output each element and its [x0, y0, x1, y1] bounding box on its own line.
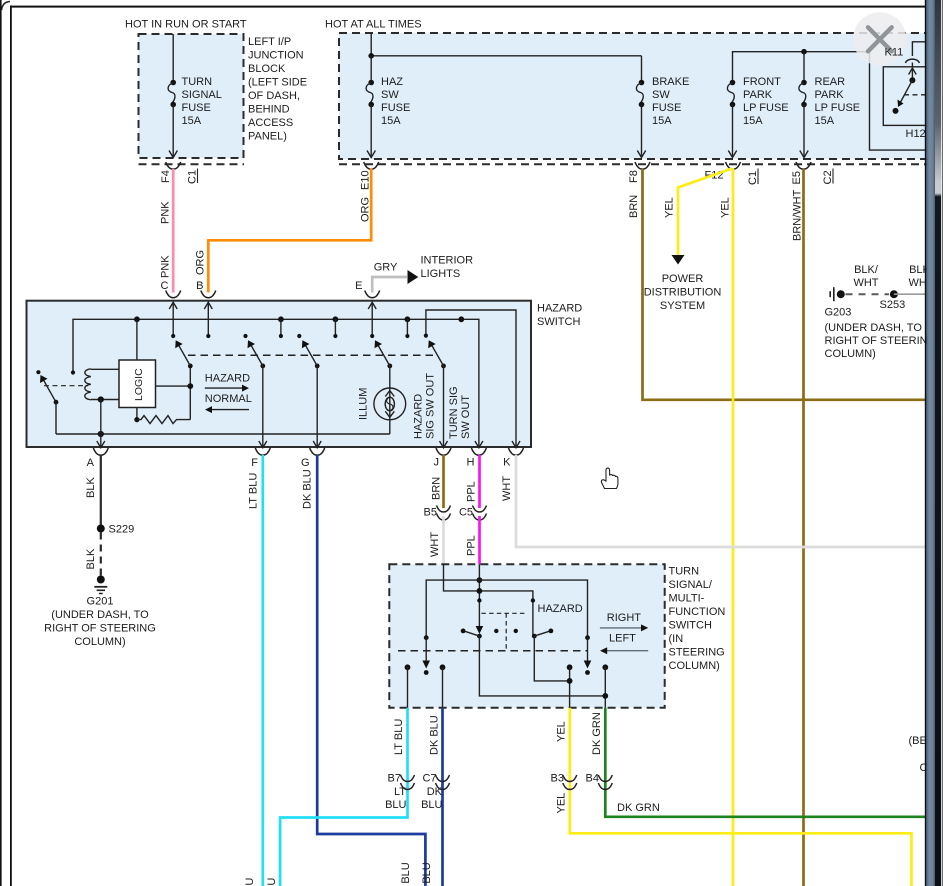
- junction block caption LEFT I/P JUNCTION BLOCK: [248, 36, 307, 143]
- ground label G203 (UNDER DASH, TO RIGHT OF STEERING COLUMN): [825, 307, 937, 361]
- wire PNK from F4 to hazard switch pin C: [172, 169, 175, 293]
- caption TURN SIGNAL/MULTI-FUNCTION SWITCH (IN STEERING COLUMN): [669, 566, 726, 673]
- turn lever right: [532, 629, 570, 681]
- bus wire HAZ-BRAKE (hot at all times): [370, 33, 372, 56]
- svg-text:RIGHT OF STEERING: RIGHT OF STEERING: [825, 335, 937, 347]
- svg-text:(BE: (BE: [909, 735, 927, 747]
- svg-text:WHT: WHT: [429, 532, 441, 557]
- pin A exit arrow: [97, 441, 105, 448]
- label RIGHT with arrow: [600, 612, 648, 631]
- diagram border top: [10, 6, 925, 8]
- svg-text:LT BLU: LT BLU: [248, 473, 260, 509]
- connector C5 arcs: [473, 506, 487, 513]
- flasher relay coil: [85, 369, 119, 400]
- svg-text:B5: B5: [424, 507, 437, 519]
- svg-text:G201: G201: [87, 596, 114, 608]
- ground label G201 (UNDER DASH, TO RIGHT OF STEERING COLUMN): [44, 596, 156, 649]
- flasher mechanical link (dashed): [44, 385, 88, 387]
- rail A stub contact for S4: [405, 319, 409, 338]
- fuse REAR PARK LP FUSE 15A: [799, 52, 808, 158]
- connector E5/C2 arc: [796, 162, 811, 169]
- wire PPL from connector C5 to multi-function switch: [478, 516, 481, 565]
- wire BLK/WHT continuing right: [894, 293, 926, 295]
- svg-text:ILLUM: ILLUM: [358, 388, 370, 420]
- svg-text:BLU: BLU: [421, 799, 442, 811]
- switch arm right (hazard) with arrow: [584, 635, 592, 675]
- junction at HAZ fuse top: [368, 53, 374, 59]
- arrow to INTERIOR LIGHTS: [408, 270, 419, 284]
- wire LT BLU from switch through connector B7 to bottom: [280, 708, 407, 886]
- svg-text:F4: F4: [160, 170, 172, 183]
- contact dot pin YEL: [567, 664, 573, 707]
- svg-text:B7: B7: [388, 773, 401, 785]
- svg-text:G203: G203: [825, 307, 852, 319]
- svg-text:C: C: [161, 280, 169, 292]
- svg-text:REAR: REAR: [815, 76, 846, 88]
- svg-text:YEL: YEL: [556, 793, 568, 814]
- svg-text:15A: 15A: [652, 115, 672, 127]
- label LEFT with arrow: [600, 633, 648, 655]
- contact dot pin DK GRN: [602, 664, 608, 707]
- pin WHT entry into switch: [444, 564, 533, 636]
- pin B entry arrow: [204, 302, 212, 336]
- svg-text:DISTRIBUTION: DISTRIBUTION: [644, 287, 722, 299]
- ganged switch mechanical link (dashed): [188, 354, 436, 356]
- svg-text:WHT: WHT: [501, 476, 513, 501]
- switch S3 (pin G output) floating contact: [297, 334, 301, 338]
- wire ORG from haz sw fuse E10 to hazard switch pin B: [208, 169, 371, 293]
- svg-text:FUSE: FUSE: [652, 102, 681, 114]
- svg-text:SWITCH: SWITCH: [537, 316, 580, 328]
- relay K11 contact arm: [893, 68, 917, 114]
- wire BRN from pin J to connector B5: [442, 455, 445, 508]
- svg-text:BLK: BLK: [85, 477, 97, 498]
- svg-text:G: G: [301, 457, 310, 469]
- svg-text:LEFT: LEFT: [609, 633, 636, 645]
- svg-text:HOT AT ALL TIMES: HOT AT ALL TIMES: [325, 19, 422, 31]
- bus wire PARK LP fuses to relay: [733, 52, 929, 150]
- switch S3 lever and pin G stem: [302, 340, 320, 441]
- pin H exit arrow: [475, 441, 483, 448]
- svg-text:SIG SW OUT: SIG SW OUT: [425, 373, 437, 439]
- junction dots on PPL stem: [477, 577, 483, 583]
- svg-text:SIGNAL/: SIGNAL/: [669, 579, 713, 591]
- svg-text:STEERING: STEERING: [669, 647, 725, 659]
- wire BLK dashed to ground: [100, 533, 102, 576]
- svg-text:K: K: [503, 457, 511, 469]
- svg-text:DK: DK: [427, 786, 443, 798]
- internal rail B (turn feed to pin K): [426, 310, 516, 441]
- svg-text:BLU: BLU: [385, 799, 406, 811]
- connector arc at hazard switch pin E: [365, 291, 380, 298]
- connector E10 arc: [364, 162, 379, 169]
- svg-text:TURN SIG: TURN SIG: [448, 386, 460, 439]
- svg-text:FUNCTION: FUNCTION: [669, 606, 726, 618]
- flasher relay switch lever: [40, 375, 58, 434]
- svg-text:GRY: GRY: [374, 262, 398, 274]
- resistor R1: [137, 416, 190, 424]
- wire color label LT BLU (below B7): [385, 786, 406, 811]
- switch S4 (illumination) contact at pin E: [370, 334, 374, 338]
- svg-text:PPL: PPL: [466, 535, 478, 556]
- wire color label BLK/WHT (left): [853, 264, 878, 289]
- svg-text:SW: SW: [381, 89, 399, 101]
- connector B7 arcs: [401, 775, 415, 782]
- turn lever left with arrow: [461, 626, 606, 696]
- svg-text:BRAKE: BRAKE: [652, 76, 689, 88]
- svg-text:OF DASH,: OF DASH,: [248, 90, 300, 102]
- svg-text:BLK: BLK: [85, 548, 97, 569]
- svg-text:MULTI-: MULTI-: [669, 593, 705, 605]
- wire GRY from pin E to interior lights: [372, 277, 407, 293]
- svg-text:COLUMN): COLUMN): [669, 660, 720, 672]
- svg-text:LT BLU: LT BLU: [244, 878, 256, 886]
- value label TURN SIGNAL FUSE 15A: [182, 76, 222, 127]
- svg-text:15A: 15A: [743, 115, 763, 127]
- junction dot YEL branch: [567, 678, 573, 684]
- svg-text:SYSTEM: SYSTEM: [660, 300, 705, 312]
- svg-text:PNK: PNK: [160, 255, 172, 278]
- flasher relay switch contact (open): [36, 370, 40, 374]
- wire YEL branch to power distribution: [678, 169, 732, 256]
- connector face dashed line under fuse block: [339, 163, 928, 165]
- svg-text:DK BLU: DK BLU: [400, 862, 412, 886]
- wire WHT from connector B5 to multi-function switch: [442, 516, 445, 565]
- fuse BRAKE SW FUSE 15A: [636, 56, 645, 158]
- svg-text:15A: 15A: [182, 115, 202, 127]
- svg-text:DK BLU: DK BLU: [421, 862, 433, 886]
- contact dot pin DK BLU: [440, 664, 446, 707]
- svg-text:SIGNAL: SIGNAL: [182, 89, 222, 101]
- logic module box U1: [119, 360, 156, 408]
- turn signal / multi-function switch (dashed box): [389, 564, 664, 708]
- svg-text:A: A: [87, 457, 95, 469]
- svg-text:E5: E5: [791, 171, 803, 184]
- ground G203 symbol: [830, 287, 845, 301]
- switch S4 lever: [375, 340, 393, 368]
- svg-text:C7: C7: [422, 773, 436, 785]
- wire BLK from pin A: [100, 455, 102, 525]
- wire BLK/WHT dashed to splice: [846, 293, 890, 295]
- svg-text:HAZ: HAZ: [381, 76, 403, 88]
- contact dot pin LT BLU: [405, 664, 411, 707]
- svg-text:NORMAL: NORMAL: [205, 393, 252, 405]
- svg-text:SWITCH: SWITCH: [669, 620, 712, 632]
- detent dashed outline: [481, 612, 525, 614]
- connector B4 arcs: [598, 775, 612, 782]
- svg-text:FUSE: FUSE: [182, 102, 211, 114]
- svg-text:(IN: (IN: [669, 633, 684, 645]
- fuse HAZ SW FUSE 15A: [366, 56, 375, 158]
- svg-text:(LEFT SIDE: (LEFT SIDE: [248, 77, 307, 89]
- switch arm feed stem: [189, 366, 191, 420]
- logic feed from rail A: [136, 319, 138, 360]
- svg-text:DK BLU: DK BLU: [429, 715, 441, 755]
- switch S2 lever and pin F stem: [248, 340, 266, 441]
- connector C1 arc at fuse output: [166, 162, 181, 169]
- svg-text:C1: C1: [187, 170, 199, 184]
- junction dots on rail A: [134, 316, 140, 322]
- svg-text:YEL: YEL: [556, 721, 568, 742]
- junction dot at coil return / pin A: [98, 396, 104, 402]
- diagram border left: [10, 6, 12, 886]
- switch mechanical link (dashed): [398, 650, 588, 652]
- svg-text:POWER: POWER: [662, 273, 704, 285]
- connector arcs under hazard switch: [93, 448, 108, 455]
- svg-text:YEL: YEL: [664, 197, 676, 218]
- svg-text:BRN: BRN: [431, 477, 443, 500]
- svg-text:LT BLU: LT BLU: [266, 878, 278, 886]
- svg-text:F: F: [251, 457, 258, 469]
- logic output to resistor node: [136, 408, 138, 420]
- svg-text:JUNCTION: JUNCTION: [248, 50, 304, 62]
- switch S1 lever: [175, 340, 193, 368]
- switch S5 lever and pin J stem: [428, 340, 446, 441]
- rail A stub contact for S3: [333, 319, 337, 338]
- wire BRN/WHT from park lp fuse to bottom: [802, 169, 805, 886]
- wire DK BLU from switch through connector C7 to bottom: [441, 708, 444, 886]
- svg-text:TURN: TURN: [669, 566, 700, 578]
- switch S2 (pin F output) floating contact: [243, 334, 247, 338]
- svg-text:BRN/WHT: BRN/WHT: [792, 189, 804, 241]
- connector C1 arc (haz sw fuse output): [726, 162, 741, 169]
- svg-text:RIGHT: RIGHT: [607, 612, 642, 624]
- relay K11 mechanical link (dashed): [904, 94, 928, 96]
- viewer frame corner arc: [2, 2, 11, 11]
- rail A end contact: [71, 370, 75, 374]
- svg-text:S229: S229: [109, 524, 135, 536]
- svg-text:E10: E10: [360, 170, 372, 190]
- svg-text:B3: B3: [551, 773, 564, 785]
- underhood fuse block (dashed box): [339, 33, 928, 159]
- pin A stem: [100, 400, 102, 442]
- lamp ILLUM: [374, 366, 406, 434]
- svg-text:HAZARD: HAZARD: [538, 603, 583, 615]
- svg-text:YEL: YEL: [720, 197, 732, 218]
- connector C7 arcs: [436, 775, 450, 782]
- internal rail A (hazard feed): [73, 319, 479, 441]
- arrow to POWER DISTRIBUTION SYSTEM: [672, 255, 685, 265]
- fuse FRONT PARK LP FUSE 15A: [727, 80, 736, 158]
- splice S253: [890, 290, 898, 298]
- logic right output: [156, 385, 191, 387]
- relay K11 outline box: [883, 67, 933, 126]
- off-page label INTERIOR LIGHTS: [421, 255, 474, 281]
- svg-text:C1: C1: [747, 171, 759, 185]
- value label REAR PARK LP FUSE 15A: [815, 76, 861, 127]
- svg-text:LT BLU: LT BLU: [393, 719, 405, 755]
- connector F8 arc: [635, 162, 650, 169]
- switch arm left (hazard) with arrow: [422, 635, 430, 675]
- wire PPL from pin H to connector C5: [478, 455, 481, 508]
- svg-text:HOT IN RUN OR START: HOT IN RUN OR START: [125, 19, 247, 31]
- ground rail to pin A: [56, 433, 390, 435]
- label NORMAL with arrow left: [205, 393, 252, 413]
- svg-text:LT: LT: [394, 786, 406, 798]
- svg-text:BLK/: BLK/: [854, 264, 879, 276]
- svg-text:PPL: PPL: [466, 481, 478, 502]
- off-page label POWER DISTRIBUTION SYSTEM: [644, 273, 722, 312]
- label HAZARD with arrow right: [205, 373, 250, 392]
- svg-text:B4: B4: [586, 773, 599, 785]
- mouse cursor: [601, 468, 618, 488]
- svg-text:COLUMN): COLUMN): [74, 636, 125, 648]
- pin PPL entry into switch: [478, 564, 480, 631]
- pin F exit arrow: [259, 441, 267, 448]
- wire WHT from pin K to right edge: [516, 455, 926, 547]
- connector face dashed line under left box: [139, 163, 245, 165]
- ground G201 symbol: [94, 576, 107, 594]
- svg-text:S253: S253: [880, 299, 906, 311]
- component label HAZARD SWITCH: [537, 303, 582, 329]
- svg-text:C5: C5: [459, 507, 473, 519]
- pin K exit arrow: [512, 441, 520, 448]
- svg-text:INTERIOR: INTERIOR: [421, 255, 474, 267]
- wire YEL from C1 down to bottom: [732, 169, 735, 886]
- svg-text:K11: K11: [885, 47, 904, 59]
- svg-text:C2: C2: [822, 170, 834, 184]
- wire BRN from brake sw fuse (to right edge): [643, 169, 926, 400]
- svg-text:PANEL): PANEL): [248, 131, 287, 143]
- svg-text:FUSE: FUSE: [381, 102, 410, 114]
- svg-text:15A: 15A: [381, 115, 401, 127]
- svg-text:HAZARD: HAZARD: [205, 373, 250, 385]
- connector arc at hazard switch pin B: [201, 291, 216, 298]
- wire color label DK BLU (below C7): [421, 786, 443, 811]
- rail A stub contact for S2: [279, 319, 283, 338]
- floating contacts between levers: [494, 629, 498, 633]
- svg-text:(UNDER DASH, TO: (UNDER DASH, TO: [825, 322, 923, 334]
- close button: [853, 12, 906, 65]
- svg-text:BLOCK: BLOCK: [248, 63, 286, 75]
- connector B5 arcs: [437, 506, 451, 513]
- svg-text:E: E: [355, 280, 362, 292]
- junction at REAR PARK fuse top: [801, 49, 807, 55]
- svg-text:J: J: [434, 457, 440, 469]
- switch S5 (hazard/turn output select) contact to rail B: [424, 334, 428, 338]
- pin G exit arrow: [313, 441, 321, 448]
- svg-text:H: H: [467, 457, 475, 469]
- value label FRONT PARK LP FUSE 15A: [743, 76, 789, 127]
- hazard contact dot: [531, 598, 535, 602]
- svg-text:F8: F8: [628, 170, 640, 183]
- svg-text:PNK: PNK: [160, 201, 172, 224]
- svg-text:DK BLU: DK BLU: [302, 469, 314, 509]
- svg-text:TURN: TURN: [182, 76, 213, 88]
- svg-text:PARK: PARK: [815, 89, 845, 101]
- svg-text:LEFT I/P: LEFT I/P: [248, 36, 291, 48]
- svg-text:PARK: PARK: [743, 89, 773, 101]
- fuse F4 TURN SIGNAL FUSE 15A: [168, 34, 177, 158]
- svg-text:ORG: ORG: [360, 197, 372, 222]
- pin E entry arrow: [368, 302, 376, 336]
- svg-text:(UNDER DASH, TO: (UNDER DASH, TO: [51, 609, 149, 621]
- svg-text:LIGHTS: LIGHTS: [421, 268, 461, 280]
- svg-text:DK GRN: DK GRN: [591, 712, 603, 755]
- svg-text:HAZARD: HAZARD: [413, 394, 425, 439]
- svg-text:WHT: WHT: [853, 277, 878, 289]
- svg-text:B: B: [196, 280, 203, 292]
- svg-text:LP FUSE: LP FUSE: [743, 102, 789, 114]
- viewer frame left edge: [0, 0, 2, 886]
- svg-text:15A: 15A: [815, 115, 835, 127]
- wire DK BLU from pin G to bottom right: [317, 455, 425, 886]
- connector B3 arcs: [563, 775, 577, 782]
- svg-text:LP FUSE: LP FUSE: [815, 102, 861, 114]
- svg-text:HAZARD: HAZARD: [537, 303, 582, 315]
- wire YEL from switch through connector B3 to bottom right: [570, 708, 912, 886]
- pin C entry arrow: [169, 302, 177, 336]
- right side bar: [925, 0, 943, 886]
- value label HAZ SW FUSE 15A: [381, 76, 410, 127]
- left I/P junction block (dashed box): [139, 34, 244, 158]
- wire color label BLK/WHT (right, clipped): [908, 264, 933, 289]
- svg-text:COLUMN): COLUMN): [825, 348, 876, 360]
- svg-text:H12: H12: [906, 128, 926, 140]
- svg-text:FRONT: FRONT: [743, 76, 781, 88]
- svg-text:RIGHT OF STEERING: RIGHT OF STEERING: [44, 623, 156, 635]
- relay K11 feed wire and connector: [905, 42, 928, 67]
- connector arc at hazard switch pin C: [166, 291, 181, 298]
- svg-text:ORG: ORG: [195, 250, 207, 275]
- splice S229: [97, 525, 105, 533]
- svg-text:BRN: BRN: [628, 195, 640, 218]
- svg-text:LOGIC: LOGIC: [133, 368, 145, 401]
- svg-text:DK GRN: DK GRN: [617, 802, 660, 814]
- svg-text:SW: SW: [652, 89, 670, 101]
- hazard feed rail in switch: [426, 580, 587, 638]
- pin J exit arrow: [440, 441, 448, 448]
- svg-text:ACCESS: ACCESS: [248, 117, 293, 129]
- wire DK GRN from switch through connector B4 to right edge: [605, 708, 925, 817]
- svg-text:SW OUT: SW OUT: [460, 395, 472, 439]
- wire LT BLU from pin F to bottom: [261, 455, 264, 886]
- hazard switch box outline: [27, 301, 532, 447]
- value label BRAKE SW FUSE 15A: [652, 76, 689, 127]
- switch S1 (turn/hazard feed select) contacts C and B: [171, 334, 175, 338]
- svg-text:BEHIND: BEHIND: [248, 104, 290, 116]
